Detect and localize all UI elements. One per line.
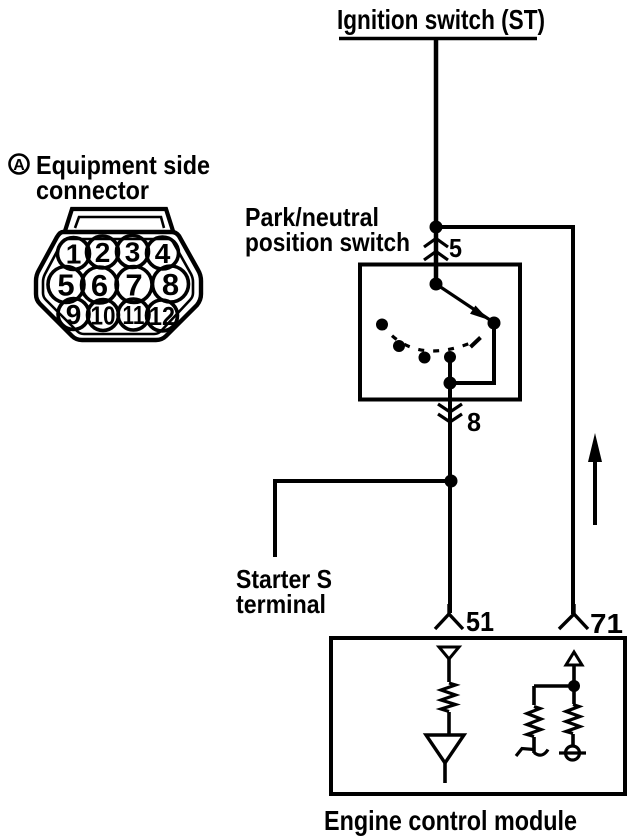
pin circle 3 [117,236,149,268]
svg-text:11: 11 [123,300,145,330]
node: starter branch junction [445,475,458,488]
wire [447,712,451,735]
pin circle 6 [82,267,118,303]
svg-text:3: 3 [125,237,141,268]
pin circle 11 [118,299,149,330]
pin circle 5 [48,267,84,303]
hook symbol under R2 [516,749,534,757]
wire [572,665,576,704]
ECM pin 51 symbol (bird foot) [435,604,463,629]
small input triangle on pin 51 branch [439,647,459,659]
svg-text:71: 71 [590,608,623,639]
svg-text:position switch: position switch [245,227,410,257]
svg-text:Ignition switch (ST): Ignition switch (ST) [337,4,545,35]
dashed arc of other switch positions [382,325,478,351]
wire: horizontal to output [448,381,496,385]
wire: output down through box bottom to ECM pin 51 [448,383,452,613]
svg-text:A: A [13,157,25,174]
engine control module box [331,638,625,794]
svg-text:Engine control module: Engine control module [324,805,577,836]
pin circle 1 [58,238,90,270]
svg-text:8: 8 [162,267,179,302]
svg-text:5: 5 [449,233,462,263]
svg-text:6: 6 [91,268,108,303]
pin circle 12 [147,300,178,331]
underline under Ignition switch (ST) [339,37,537,41]
wire [447,659,451,682]
arrow: upward direction arrow on right wire [593,458,597,525]
svg-text:connector: connector [36,175,149,205]
ground circle symbol [559,751,586,754]
connector housing tab inner line [75,217,164,228]
node: selected contact (right) [488,317,501,330]
pin circle 7 [116,267,152,303]
svg-text:8: 8 [467,407,481,437]
wire: main vertical from ignition switch down into park/neutral box [434,38,439,284]
svg-text:51: 51 [466,606,494,637]
wire [571,734,575,746]
contact dot R [393,340,405,352]
wire down left internal branch [532,686,536,705]
wire: right vertical down to pin 71 [571,225,575,614]
small output triangle on pin 71 branch [566,652,582,665]
wire: contact D to output junction [448,357,452,383]
switch arm (diagonal with arrowhead) [436,284,493,322]
svg-text:terminal: terminal [236,589,326,619]
resistor R1 (pin 51 branch) [441,683,456,712]
wire: starter branch vertical [273,479,277,557]
pin circle 8 [153,266,189,302]
node: junction of main wire and branch to pin 71 [430,221,443,234]
pin circle 10 [88,300,119,331]
ECM pin 71 symbol (bird foot) [559,604,588,629]
wire: horizontal to left internal branch [534,684,574,688]
connector housing outer outline [36,232,201,340]
svg-text:10: 10 [91,301,116,331]
node: output junction [444,377,457,390]
resistor R2 (left internal) [527,707,541,737]
pin circle 9 [58,299,89,331]
wire: horizontal branch to right vertical (to pin 71) [436,225,575,229]
node: internal junction [568,680,580,692]
wire: horizontal branch to starter S terminal [275,479,451,483]
resistor R3 (right internal) [566,705,580,734]
svg-text:9: 9 [66,299,82,330]
large triangle symbol (pin 51 branch) [426,735,464,763]
circled A [10,155,29,174]
connector housing inner outline [43,239,193,334]
contact dot N [419,352,431,364]
svg-text:2: 2 [95,237,111,268]
wire below large triangle [443,763,447,783]
svg-text:12: 12 [149,301,175,331]
node: switch common contact [430,278,443,291]
park/neutral position switch box [360,265,520,400]
connector symbol 5 (two upward chevrons) [424,239,448,261]
contact dot P [376,319,388,331]
pin circle 2 [87,236,119,268]
connector housing tab outer [65,209,173,231]
dash near contact 1 [471,338,481,348]
connector symbol 8 (two downward chevrons) [438,404,462,422]
wire: from selected contact down [492,323,496,383]
contact dot D [444,351,456,363]
arrowhead on switch arm [470,306,489,321]
pin circle 4 [147,237,179,269]
wire [532,737,536,753]
